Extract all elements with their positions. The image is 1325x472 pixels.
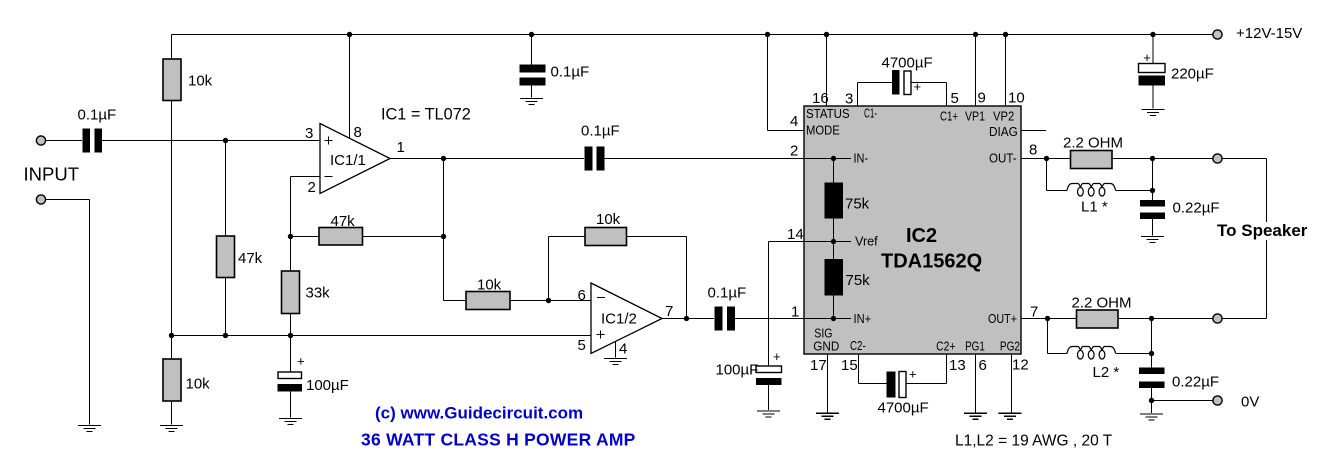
svg-text:75k: 75k (846, 272, 871, 289)
svg-text:14: 14 (787, 226, 804, 243)
svg-text:0.22µF: 0.22µF (1172, 374, 1219, 391)
svg-text:3: 3 (305, 125, 313, 142)
svg-text:IC1 = TL072: IC1 = TL072 (381, 106, 471, 124)
svg-text:8: 8 (1029, 142, 1037, 159)
svg-text:L1,L2 = 19 AWG , 20 T: L1,L2 = 19 AWG , 20 T (955, 433, 1113, 450)
svg-text:47k: 47k (238, 250, 263, 267)
svg-text:+: + (773, 349, 781, 364)
svg-text:10k: 10k (477, 277, 502, 294)
svg-text:2.2 OHM: 2.2 OHM (1063, 135, 1123, 152)
svg-text:100µF: 100µF (716, 362, 759, 379)
svg-text:+: + (297, 353, 305, 368)
svg-text:7: 7 (665, 303, 673, 320)
svg-text:1: 1 (397, 139, 405, 156)
svg-text:+: + (914, 79, 922, 94)
svg-text:36 WATT CLASS H POWER AMP: 36 WATT CLASS H POWER AMP (361, 430, 636, 450)
svg-text:3: 3 (845, 91, 853, 108)
svg-text:6: 6 (979, 357, 987, 374)
svg-text:IC1/1: IC1/1 (330, 152, 366, 169)
svg-text:10k: 10k (186, 376, 211, 393)
svg-text:10k: 10k (596, 211, 621, 228)
svg-text:2: 2 (308, 179, 316, 196)
svg-text:DIAG: DIAG (989, 125, 1018, 139)
svg-text:C1+: C1+ (940, 110, 958, 124)
svg-text:5: 5 (951, 90, 959, 107)
svg-text:C2+: C2+ (936, 339, 955, 353)
svg-text:INPUT: INPUT (24, 164, 80, 185)
svg-text:(c) www.Guidecircuit.com: (c) www.Guidecircuit.com (375, 404, 583, 423)
svg-text:GND: GND (813, 339, 839, 353)
svg-text:100µF: 100µF (306, 377, 349, 394)
svg-text:5: 5 (578, 337, 586, 354)
svg-text:12: 12 (1012, 357, 1029, 374)
svg-text:47k: 47k (331, 213, 356, 230)
svg-text:6: 6 (578, 287, 586, 304)
svg-text:OUT+: OUT+ (988, 312, 1017, 326)
svg-text:0.1µF: 0.1µF (78, 107, 117, 124)
svg-text:IC1/2: IC1/2 (601, 311, 637, 328)
svg-text:33k: 33k (306, 285, 331, 302)
svg-text:PG2: PG2 (1000, 339, 1020, 353)
svg-text:L2 *: L2 * (1093, 364, 1120, 381)
svg-text:C2-: C2- (850, 339, 866, 353)
svg-text:17: 17 (810, 357, 827, 374)
svg-text:13: 13 (949, 357, 966, 374)
svg-text:+: + (909, 367, 917, 382)
svg-text:0.1µF: 0.1µF (551, 64, 590, 81)
svg-text:1: 1 (791, 304, 799, 321)
svg-text:0.1µF: 0.1µF (581, 123, 620, 140)
svg-text:L1 *: L1 * (1081, 199, 1108, 216)
svg-text:2: 2 (790, 143, 798, 160)
svg-text:4: 4 (790, 113, 798, 130)
svg-text:220µF: 220µF (1171, 66, 1214, 83)
svg-text:IC2: IC2 (906, 225, 937, 247)
svg-text:C1-: C1- (864, 107, 877, 121)
svg-text:PG1: PG1 (965, 339, 985, 353)
svg-text:IN-: IN- (854, 152, 869, 166)
svg-text:9: 9 (978, 90, 986, 107)
svg-text:15: 15 (841, 357, 858, 374)
svg-text:Vref: Vref (855, 234, 878, 248)
svg-text:4: 4 (619, 341, 627, 358)
svg-text:+12V-15V: +12V-15V (1236, 25, 1302, 42)
svg-text:4700µF: 4700µF (878, 400, 929, 417)
svg-text:7: 7 (1030, 304, 1038, 321)
svg-text:SIG: SIG (814, 327, 832, 341)
svg-text:0V: 0V (1241, 394, 1259, 411)
svg-text:OUT-: OUT- (989, 152, 1017, 166)
svg-text:16: 16 (812, 90, 829, 107)
svg-text:2.2 OHM: 2.2 OHM (1072, 295, 1132, 312)
svg-text:MODE: MODE (806, 124, 840, 138)
svg-text:STATUS: STATUS (806, 107, 850, 121)
svg-text:TDA1562Q: TDA1562Q (881, 251, 982, 273)
svg-text:10k: 10k (188, 73, 213, 90)
svg-text:10: 10 (1008, 90, 1025, 107)
svg-text:IN+: IN+ (854, 312, 872, 326)
svg-text:75k: 75k (845, 196, 870, 213)
svg-text:0.22µF: 0.22µF (1173, 200, 1220, 217)
svg-text:VP2: VP2 (993, 110, 1014, 124)
svg-text:0.1µF: 0.1µF (708, 285, 747, 302)
svg-text:4700µF: 4700µF (882, 55, 933, 72)
svg-text:8: 8 (354, 124, 362, 141)
svg-text:To Speaker: To Speaker (1217, 221, 1308, 240)
svg-text:+: + (1143, 50, 1151, 65)
svg-text:VP1: VP1 (965, 110, 985, 124)
